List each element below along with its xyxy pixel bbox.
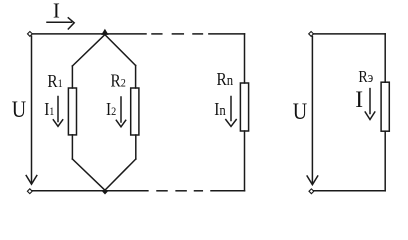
wire top bus solid right (209, 33, 245, 35)
resistor Rn (240, 83, 248, 131)
svg-text:U: U (12, 97, 27, 123)
node B (bottom-left terminal, left circuit) (27, 189, 32, 194)
svg-text:I1: I1 (44, 99, 54, 119)
svg-text:I: I (53, 0, 60, 23)
node A (top-left terminal, left circuit) (27, 31, 32, 36)
wire Re top stub (384, 34, 386, 82)
arrowhead U right (307, 176, 318, 185)
wire left branch vertical (U arrow shaft) (31, 36, 33, 183)
wire In arrow shaft (230, 97, 232, 121)
wire top bus solid left (32, 33, 146, 35)
wire diagonal from top junction to R1 (72, 35, 105, 66)
node D (bottom-left terminal, right circuit) (309, 189, 314, 194)
wire top bus dash 1 (152, 33, 162, 35)
svg-text:R2: R2 (111, 70, 126, 90)
wire diagonal from top junction to R2 (105, 35, 136, 66)
wire diagonal from R2 to bottom junction (105, 159, 136, 190)
wire bottom bus dash 1 (157, 190, 167, 192)
wire I2 arrow shaft (120, 97, 122, 122)
wire bottom bus right circuit (314, 190, 385, 192)
wire bottom bus dash 2 (176, 190, 186, 192)
svg-text:U: U (293, 99, 308, 125)
svg-text:R1: R1 (47, 71, 62, 91)
wire R2 top stub (135, 66, 137, 89)
wire R1 bottom stub (71, 135, 73, 159)
arrowhead In (226, 120, 236, 127)
svg-text:I2: I2 (106, 99, 116, 119)
wire R2 bottom stub (135, 135, 137, 159)
wire bottom bus dash 3 (195, 190, 203, 192)
arrowhead U left (26, 176, 37, 185)
junction top node (101, 29, 108, 35)
wire left branch vertical right circuit (U arrow shaft) (311, 37, 313, 184)
wire I1 arrow shaft (57, 97, 59, 122)
svg-text:I: I (355, 87, 363, 113)
resistor R1 (68, 88, 76, 135)
wire bottom bus solid right (211, 190, 245, 192)
wire bottom bus solid left (32, 190, 148, 192)
resistor Re (381, 82, 389, 131)
wire top bus dash 3 (193, 33, 202, 35)
arrowhead I2 (116, 120, 125, 127)
wire Re bottom stub (384, 131, 386, 191)
wire I arrow top (current direction) (47, 21, 72, 23)
wire Rn bottom stub (244, 131, 246, 191)
arrowhead I top (68, 18, 74, 29)
wire R1 top stub (71, 66, 73, 88)
resistor R2 (131, 88, 139, 135)
svg-text:Rn: Rn (217, 69, 234, 89)
wire I arrow shaft right circuit (369, 89, 371, 114)
wire diagonal from R1 to bottom junction (72, 159, 105, 190)
arrowhead I1 (53, 120, 62, 127)
svg-text:Rэ: Rэ (358, 68, 373, 86)
svg-text:In: In (214, 99, 226, 119)
node C (top-left terminal, right circuit) (309, 31, 314, 36)
arrowhead I right (365, 112, 375, 120)
junction bottom node (102, 191, 109, 195)
wire Rn top stub (244, 34, 246, 83)
wire top bus dash 2 (172, 33, 183, 35)
wire top bus right circuit (314, 33, 386, 35)
